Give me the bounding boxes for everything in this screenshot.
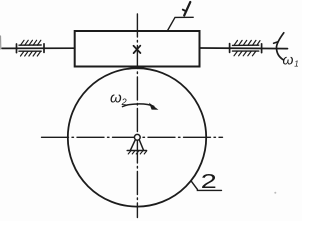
pivot support at wheel center — [127, 134, 146, 154]
center mark X on shaft — [134, 46, 141, 53]
rotation arrow omega2 — [123, 104, 158, 110]
svg-text:1: 1 — [294, 60, 298, 69]
wire: left shaft — [2, 47, 75, 49]
label digit 2 text — [201, 170, 217, 193]
svg-text:ω: ω — [110, 90, 122, 107]
wheel 2 (circle) — [68, 68, 206, 206]
svg-text:2: 2 — [201, 170, 217, 193]
centerline vertical — [136, 14, 138, 218]
bearing right — [230, 40, 262, 55]
leader line for label 2 — [191, 181, 222, 191]
svg-text:ω: ω — [283, 52, 294, 68]
scan artifact marks — [1, 36, 277, 194]
label omega1 text — [283, 52, 299, 69]
leader line for label 1 — [168, 17, 194, 30]
centerline horizontal — [42, 136, 223, 138]
label omega2 text — [110, 90, 127, 108]
wire: right shaft — [200, 47, 288, 50]
rotation arrow omega1 — [274, 33, 284, 60]
bearing left — [17, 40, 45, 56]
svg-text:2: 2 — [121, 97, 127, 107]
roller body 1 (rectangle) — [75, 31, 200, 67]
label digit 1 — [183, 2, 191, 16]
